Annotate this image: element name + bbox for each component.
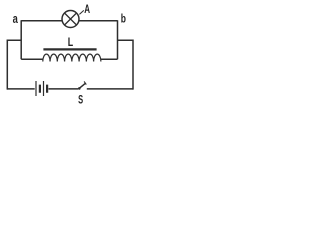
svg-text:S: S: [78, 93, 83, 107]
svg-text:A: A: [84, 2, 90, 16]
svg-text:b: b: [121, 13, 126, 25]
svg-text:a: a: [13, 11, 19, 26]
svg-text:L: L: [68, 35, 73, 49]
